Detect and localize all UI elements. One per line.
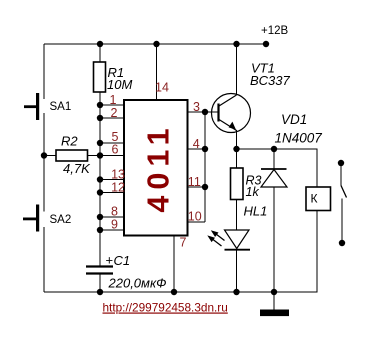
svg-text:11: 11 (188, 175, 201, 189)
svg-text:1N4007: 1N4007 (275, 131, 323, 146)
svg-text:SA1: SA1 (50, 101, 72, 113)
svg-text:10M: 10M (107, 77, 132, 92)
svg-text:R2: R2 (61, 134, 78, 149)
svg-text:4011: 4011 (141, 122, 175, 212)
svg-text:7: 7 (180, 236, 187, 250)
svg-text:220,0мкФ: 220,0мкФ (108, 276, 167, 291)
svg-text:BC337: BC337 (250, 73, 291, 88)
svg-text:6: 6 (112, 143, 119, 157)
svg-text:C1: C1 (114, 253, 131, 268)
svg-text:1: 1 (110, 93, 117, 107)
svg-text:+12В: +12В (261, 25, 289, 37)
svg-text:+: + (106, 253, 114, 268)
svg-text:12: 12 (111, 181, 125, 195)
svg-text:VD1: VD1 (281, 112, 307, 127)
svg-text:3: 3 (193, 100, 200, 114)
svg-text:13: 13 (111, 168, 125, 182)
svg-text:2: 2 (111, 106, 118, 120)
svg-text:10: 10 (188, 210, 202, 224)
svg-text:http://299792458.3dn.ru: http://299792458.3dn.ru (103, 301, 228, 315)
svg-text:4: 4 (193, 137, 200, 151)
svg-text:14: 14 (155, 81, 169, 95)
svg-text:1k: 1k (246, 185, 260, 199)
svg-text:4,7K: 4,7K (63, 161, 91, 176)
svg-text:SA2: SA2 (50, 214, 72, 226)
svg-text:9: 9 (111, 218, 118, 232)
svg-text:К: К (311, 192, 318, 206)
svg-text:8: 8 (111, 205, 118, 219)
svg-text:HL1: HL1 (244, 204, 268, 219)
